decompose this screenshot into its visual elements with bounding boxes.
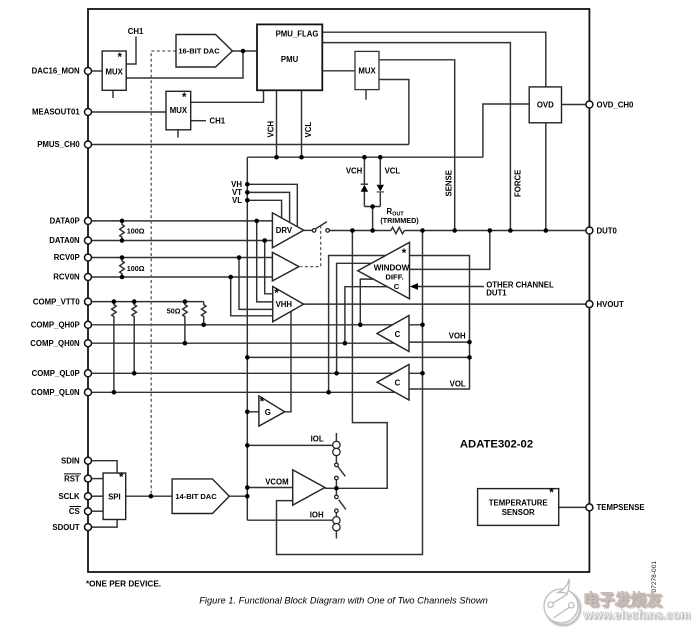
- junction R3 bottom COMP_QL0N: [112, 390, 117, 395]
- wire SDOUT to SPI: [91, 520, 117, 528]
- pin SDOUT: [85, 524, 92, 531]
- pin DUT0: [586, 227, 593, 234]
- junction VH on DAC bus: [245, 182, 250, 187]
- junction comparator line right: [467, 355, 472, 360]
- svg-text:ADATE302-02: ADATE302-02: [460, 439, 533, 451]
- junction diode pair join: [370, 204, 375, 209]
- dashed DRV switch to RCV apex: [301, 226, 321, 267]
- svg-text:*ONE PER DEVICE.: *ONE PER DEVICE.: [86, 580, 161, 589]
- dac U3 16-BIT DAC: [176, 35, 232, 68]
- junction R1 bottom DATA0N: [120, 238, 125, 243]
- wire SDIN to SPI: [91, 461, 117, 473]
- wire VCH from PMU: [276, 90, 278, 157]
- wire RCV0N branch to VHH: [231, 277, 273, 316]
- comparator U10 WINDOW DIFF: [358, 242, 410, 298]
- svg-text:MUX: MUX: [358, 66, 376, 75]
- svg-text:DRV: DRV: [276, 226, 293, 235]
- wire OVD bottom to DUT0 line: [545, 123, 547, 231]
- mux U2 MUX1: [102, 51, 126, 90]
- watermark logo circle: [544, 579, 580, 626]
- wire MUX2 bottom stub: [177, 130, 179, 138]
- wire RCV0N: [91, 276, 272, 278]
- junction IOL on bus: [245, 443, 250, 448]
- pin TEMPSENSE: [586, 504, 593, 511]
- svg-text:*: *: [274, 288, 279, 300]
- wire PMU out to FORCE vertical: [322, 43, 510, 231]
- svg-text:DUT1: DUT1: [486, 288, 507, 297]
- svg-text:SENSOR: SENSOR: [502, 508, 535, 517]
- wire IOH line: [247, 519, 332, 521]
- pin RCV0N: [85, 274, 92, 281]
- wire RST to SPI: [91, 478, 103, 480]
- svg-text:RCV0N: RCV0N: [53, 273, 80, 282]
- svg-text:RCV0P: RCV0P: [54, 253, 80, 262]
- svg-text:PMU: PMU: [281, 55, 299, 64]
- svg-text:*: *: [260, 396, 265, 408]
- svg-text:G: G: [265, 408, 271, 417]
- svg-text:50Ω: 50Ω: [167, 306, 181, 315]
- wire VOH output: [409, 341, 469, 343]
- junction QL0P window branch: [334, 371, 339, 376]
- wire SCLK to SPI: [91, 495, 103, 497]
- wire OVD left input: [483, 104, 529, 157]
- wire MUX3 bottom stub: [365, 90, 367, 100]
- svg-text:SDIN: SDIN: [61, 456, 80, 465]
- pin OVD_CH0: [586, 101, 593, 108]
- wire MUX2 out to PMU bottom stub: [191, 90, 264, 102]
- wire MUX2 CH1 stub: [191, 120, 206, 122]
- pin COMP_VTT0: [85, 298, 92, 305]
- wire COMP_QL0N: [91, 391, 399, 393]
- svg-text:VCH: VCH: [267, 121, 276, 138]
- switch SW1 DRV output: [304, 222, 330, 233]
- wire TEMPERATURE SENSOR to pin: [559, 506, 586, 508]
- wire OVD to pin OVD_CH0: [562, 104, 587, 106]
- pin PMUS_CH0: [85, 141, 92, 148]
- watermark text chinese: [583, 590, 664, 611]
- wire DATA0P: [91, 220, 272, 222]
- wire PMU_FLAG out to OVD top: [322, 32, 546, 87]
- mux U5 MUX3: [355, 51, 379, 89]
- ovd U6 OVD: [529, 87, 561, 123]
- svg-text:*: *: [118, 52, 123, 64]
- wire 14-BIT DAC out to bus: [229, 495, 247, 497]
- wire VCOM out to switch node: [325, 487, 337, 489]
- junction RCV0N VHH branch: [228, 275, 233, 280]
- wire diode join to DUT0 line: [364, 206, 380, 208]
- svg-text:COMP_QL0P: COMP_QL0P: [32, 369, 80, 378]
- wire PMU to MUX3: [322, 70, 355, 72]
- junction bus comparator line: [245, 355, 250, 360]
- svg-text:C: C: [395, 330, 401, 339]
- junction QH0P window branch: [358, 323, 363, 328]
- junction DUT0 OVD: [544, 228, 549, 233]
- wire DAC level bus vertical: [246, 157, 248, 520]
- resistor 100ohm R1 between DATA0P DATA0N: [120, 221, 125, 241]
- resistor 50ohm R4 COMP_VTT0 to COMP_QL0P: [132, 302, 137, 374]
- junction QL0N loop branch: [326, 390, 331, 395]
- dac U16 14-BIT DAC: [172, 479, 229, 514]
- junction R2 top RCV0P: [120, 255, 125, 260]
- op-amp U7 DRV: [272, 213, 303, 248]
- junction DATA0P VHH branch: [254, 219, 259, 224]
- pin label CS overline: [69, 507, 81, 516]
- svg-text:C: C: [395, 378, 401, 387]
- svg-text:TEMPERATURE: TEMPERATURE: [489, 498, 548, 507]
- pin DAC16_MON: [85, 68, 92, 75]
- wire HVOUT line: [304, 303, 586, 305]
- resistor 100ohm R2 between RCV0P RCV0N: [120, 258, 125, 278]
- junction DAC out on bus: [245, 494, 250, 499]
- wire lower switch to IOH source: [335, 513, 337, 517]
- pin DATA0P: [85, 217, 92, 224]
- switch SW3 IOH leg: [335, 495, 346, 512]
- wire MUX1 out to DAC node: [126, 51, 243, 78]
- junction DUT0 FORCE: [508, 228, 513, 233]
- svg-text:VOL: VOL: [450, 380, 466, 389]
- wire PMUS_CH0: [91, 144, 409, 146]
- svg-text:VOH: VOH: [449, 332, 466, 341]
- junction R3 top COMP_VTT0: [112, 299, 117, 304]
- svg-text:100Ω: 100Ω: [127, 227, 145, 236]
- svg-text:(TRIMMED): (TRIMMED): [380, 216, 419, 225]
- junction R6 bottom COMP_QH0P: [201, 323, 206, 328]
- pin DATA0N: [85, 237, 92, 244]
- svg-text:Figure 1. Functional Block Dia: Figure 1. Functional Block Diagram with …: [199, 596, 488, 606]
- wire QH0N branch to window: [345, 287, 387, 344]
- resistor ROUT trimmed in DUT0 line: [391, 227, 404, 233]
- wire DATA0N: [91, 240, 272, 242]
- svg-text:COMP_QH0N: COMP_QH0N: [30, 339, 80, 348]
- wire MUX3 out to SENSE vertical: [379, 60, 455, 231]
- pin SCLK: [85, 493, 92, 500]
- svg-text:SENSE: SENSE: [445, 170, 454, 196]
- wire QL0P branch to window: [337, 263, 372, 373]
- wire VT: [247, 192, 289, 222]
- wire diode branch right VCL: [379, 157, 381, 185]
- diode D2 VCL clamp: [377, 185, 384, 192]
- junction QH0P comparator rail: [420, 323, 425, 328]
- svg-text:SDOUT: SDOUT: [52, 523, 80, 532]
- wire DAC16_MON to MUX1: [91, 70, 102, 72]
- pmu U1 PMU: [257, 24, 322, 90]
- wire VH: [247, 184, 297, 227]
- wire diode branch left VCH: [363, 157, 365, 184]
- wire DUT branch to load switch: [336, 231, 387, 489]
- pin MEASOUT01: [85, 109, 92, 116]
- svg-text:VCL: VCL: [385, 167, 401, 176]
- wire IOL source stubs: [335, 433, 337, 441]
- junction DAC16 output node: [241, 49, 246, 54]
- svg-text:FORCE: FORCE: [514, 170, 523, 197]
- svg-text:16-BIT DAC: 16-BIT DAC: [178, 46, 220, 55]
- diode D1 VCH clamp: [361, 184, 368, 192]
- pin COMP_QH0P: [85, 321, 92, 328]
- wire VCOM input: [247, 487, 292, 489]
- value label ROUT: [380, 207, 419, 225]
- svg-text:14-BIT DAC: 14-BIT DAC: [175, 492, 217, 501]
- wire COMP_QL0P: [91, 372, 424, 374]
- pin label RST overline: [64, 474, 81, 483]
- pin RCV0P: [85, 254, 92, 261]
- junction DUT0 comparator branch: [420, 228, 425, 233]
- svg-text:OVD_CH0: OVD_CH0: [597, 100, 634, 109]
- resistor 50ohm R6 COMP_VTT0 to COMP_QH0P: [201, 302, 206, 325]
- wire COMP_VTT0: [91, 301, 204, 303]
- svg-text:MUX: MUX: [106, 67, 124, 76]
- op-amp U14 VCOM buffer: [293, 470, 325, 505]
- junction VCL clamp rail: [299, 155, 304, 160]
- watermark text url: [582, 608, 691, 623]
- svg-text:HVOUT: HVOUT: [597, 300, 625, 309]
- svg-text:OVD: OVD: [537, 100, 554, 109]
- junction DUT0 SENSE: [452, 228, 457, 233]
- junction load switch common node: [334, 486, 339, 491]
- svg-text:电子发烧友: 电子发烧友: [583, 590, 662, 609]
- chip boundary: [88, 9, 589, 572]
- comparator U12 VOL C: [377, 365, 409, 401]
- svg-text:DAC16_MON: DAC16_MON: [32, 67, 80, 76]
- node label OTHER CHANNEL DUT1: [486, 280, 554, 297]
- mux U4 MUX2: [166, 91, 191, 130]
- svg-text:TEMPSENSE: TEMPSENSE: [597, 503, 645, 512]
- svg-text:VCH: VCH: [346, 167, 363, 176]
- junction VL on DAC bus: [245, 198, 250, 203]
- svg-text:PMU_FLAG: PMU_FLAG: [276, 30, 319, 39]
- current source IOH: [333, 517, 340, 531]
- junction DATA0N VHH branch: [262, 238, 267, 243]
- pin COMP_QL0N: [85, 389, 92, 396]
- resistor 50ohm R5 COMP_VTT0 to COMP_QH0N: [183, 302, 188, 344]
- wire G output to VHH: [285, 311, 291, 412]
- junction R5 top COMP_VTT0: [183, 299, 188, 304]
- svg-text:IOL: IOL: [311, 435, 324, 444]
- svg-text:C: C: [394, 282, 400, 291]
- svg-text:RST: RST: [64, 474, 80, 483]
- pin SDIN: [85, 457, 92, 464]
- resistor 50ohm R3 COMP_VTT0 to COMP_QL0N: [112, 302, 117, 393]
- temperature sensor U17: [478, 488, 559, 526]
- wire window diff DUT0 input: [410, 231, 490, 270]
- svg-text:COMP_QL0N: COMP_QL0N: [31, 388, 80, 397]
- svg-text:100Ω: 100Ω: [127, 264, 145, 273]
- wire IOH source bottom stub: [335, 531, 337, 539]
- junction diode VCL tap: [378, 155, 383, 160]
- wire RCV0P branch to VHH: [239, 258, 273, 310]
- wire QL0N loop under window to VOL out: [329, 256, 470, 393]
- svg-text:07278-001: 07278-001: [651, 561, 658, 593]
- pin HVOUT: [586, 301, 593, 308]
- svg-text:VL: VL: [232, 196, 242, 205]
- current source IOL: [333, 441, 340, 455]
- junction R4 bottom COMP_QL0P: [132, 371, 137, 376]
- wire COMP_QH0N: [91, 342, 393, 344]
- wire DATA0P branch to VHH: [257, 221, 273, 302]
- dashed serial bus from 16-BIT DAC to SPI line: [151, 51, 176, 494]
- pin COMP_QH0N: [85, 340, 92, 347]
- svg-text:DUT0: DUT0: [597, 226, 618, 235]
- svg-text:WINDOW: WINDOW: [374, 264, 410, 273]
- svg-text:*: *: [402, 248, 407, 260]
- wire COMP_QH0P: [91, 324, 424, 326]
- svg-text:*: *: [119, 472, 124, 484]
- junction VOH output rail: [467, 340, 472, 345]
- wire DUT0 output line: [329, 230, 391, 232]
- junction DUT0 diode branch: [370, 228, 375, 233]
- svg-text:*: *: [549, 488, 554, 500]
- junction VT on DAC bus: [245, 190, 250, 195]
- op-amp U13 G: [259, 396, 285, 426]
- svg-text:COMP_QH0P: COMP_QH0P: [31, 321, 80, 330]
- wire G input from bus: [247, 411, 259, 413]
- wire MUX3 out to PMUS_CH0: [379, 80, 409, 145]
- svg-text:SPI: SPI: [108, 493, 121, 502]
- wire clamp rail y157: [247, 156, 483, 158]
- svg-text:DATA0N: DATA0N: [49, 236, 80, 245]
- wire CS to SPI: [91, 510, 103, 512]
- junction G input on bus: [245, 410, 250, 415]
- svg-text:DIFF.: DIFF.: [385, 273, 403, 282]
- junction serial bus tap: [149, 494, 154, 499]
- wire SPI to 14-BIT DAC: [126, 495, 172, 497]
- wire QH0P branch to window: [360, 279, 373, 325]
- junction VCOM on bus: [245, 485, 250, 490]
- wire DATA0N branch to VHH: [265, 241, 273, 294]
- svg-text:IOH: IOH: [310, 511, 324, 520]
- svg-text:PMUS_CH0: PMUS_CH0: [37, 140, 80, 149]
- junction R2 bottom RCV0N: [120, 275, 125, 280]
- op-amp U8 receiver: [272, 252, 299, 281]
- junction R5 bottom COMP_QH0N: [183, 341, 188, 346]
- wire IOL line: [247, 444, 332, 446]
- svg-text:VCL: VCL: [304, 122, 313, 138]
- svg-text:MEASOUT01: MEASOUT01: [32, 108, 80, 117]
- pin COMP_QL0P: [85, 370, 92, 377]
- svg-text:SCLK: SCLK: [58, 492, 80, 501]
- svg-text:CH1: CH1: [128, 27, 144, 36]
- svg-text:MUX: MUX: [170, 106, 188, 115]
- wire VL: [247, 200, 281, 218]
- wire OTHER CHANNEL DUT1 input: [412, 286, 484, 288]
- wire VCL from PMU: [301, 90, 303, 157]
- wire VCOM loop feedback: [277, 231, 423, 555]
- svg-text:CS: CS: [69, 507, 80, 516]
- junction DUT0 to load branch: [350, 228, 355, 233]
- wire bus to comparator line y357: [247, 356, 469, 358]
- junction diode VCH tap: [362, 155, 367, 160]
- junction QH0N window branch: [343, 341, 348, 346]
- wire 16-BIT DAC out to PMU: [232, 50, 257, 52]
- junction R4 top COMP_VTT0: [132, 299, 137, 304]
- svg-text:DATA0P: DATA0P: [50, 217, 80, 226]
- op-amp U9 VHH: [273, 287, 304, 322]
- wire node to lower switch: [335, 488, 337, 495]
- pin CS: [85, 508, 92, 515]
- comparator U11 VOH C: [377, 316, 409, 352]
- pin RST: [85, 475, 92, 482]
- svg-text:VCOM: VCOM: [265, 477, 288, 486]
- switch SW2 IOL leg: [335, 463, 346, 480]
- wire MUX1 bottom stub: [112, 90, 114, 98]
- svg-text:*: *: [182, 92, 187, 104]
- wire MEASOUT01 to MUX2: [91, 111, 166, 113]
- junction QL0P comparator rail: [420, 371, 425, 376]
- junction VCH clamp rail: [274, 155, 279, 160]
- junction DUT0 window input: [488, 228, 493, 233]
- svg-text:CH1: CH1: [210, 117, 226, 126]
- spi U15 SPI: [103, 472, 126, 519]
- svg-text:www.elecfans.com: www.elecfans.com: [582, 608, 691, 622]
- svg-text:VHH: VHH: [276, 300, 293, 309]
- junction R1 top DATA0P: [120, 219, 125, 224]
- wire CH1 to MUX1: [126, 37, 136, 65]
- arrowhead DUT1 input: [410, 283, 418, 290]
- junction RCV0P VHH branch: [237, 255, 242, 260]
- wire upper switch to node: [335, 480, 337, 489]
- svg-text:COMP_VTT0: COMP_VTT0: [33, 297, 80, 306]
- wire RCV0P: [91, 257, 272, 259]
